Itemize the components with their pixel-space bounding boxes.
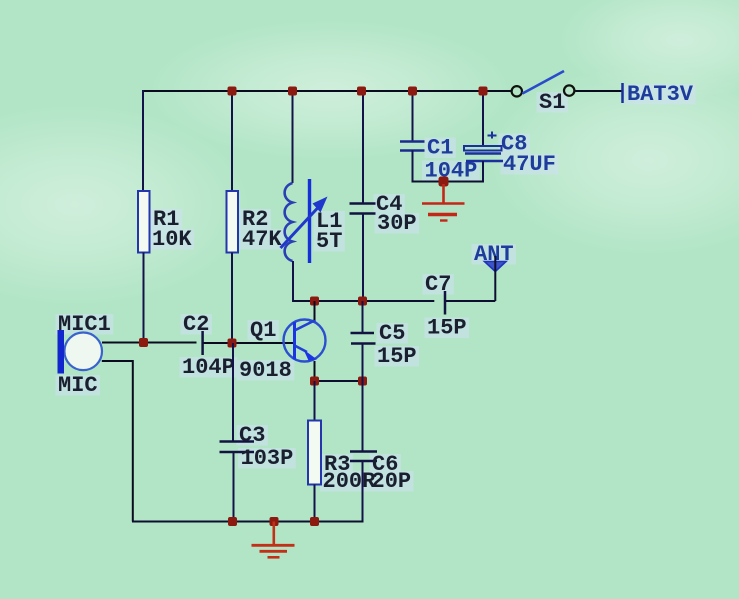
wire C3 top lead	[232, 343, 234, 442]
wire L1 bottom lead	[292, 261, 294, 302]
wire C5 bottom lead	[362, 344, 364, 382]
svg-text:C5: C5	[379, 321, 405, 346]
svg-text:BAT3V: BAT3V	[627, 82, 694, 107]
wire C3 bottom lead	[233, 452, 235, 522]
svg-text:10K: 10K	[152, 227, 192, 252]
svg-text:9018: 9018	[239, 358, 292, 383]
transistor Q1	[284, 320, 326, 362]
capacitor C4	[350, 202, 376, 205]
inductor L1	[281, 179, 328, 263]
wire R2 bottom lead	[231, 253, 233, 344]
wire C6 bottom lead	[362, 461, 364, 523]
capacitor C3	[220, 440, 255, 443]
svg-text:103P: 103P	[241, 446, 294, 471]
wire mid rail	[293, 300, 434, 302]
microphone MIC1	[64, 333, 102, 371]
wire L1 top lead	[292, 91, 294, 183]
node dot C2/R2/C3	[228, 339, 237, 348]
capacitor C1	[400, 140, 425, 143]
wire C2 to base	[204, 342, 295, 344]
ground upper (red)	[422, 184, 465, 221]
wire Q1 collector lead	[314, 301, 316, 320]
svg-text:15P: 15P	[377, 344, 417, 369]
svg-text:5T: 5T	[316, 229, 342, 254]
wire bottom rail	[132, 521, 364, 523]
switch S1	[512, 86, 522, 96]
resistor R3	[308, 421, 321, 485]
svg-text:MIC: MIC	[58, 373, 98, 398]
svg-text:20P: 20P	[372, 469, 412, 494]
wire R2 top lead	[231, 91, 233, 191]
wire R3 top lead	[314, 381, 316, 421]
capacitor C7	[444, 291, 447, 315]
wire switch to battery	[575, 90, 622, 92]
svg-text:C7: C7	[425, 272, 451, 297]
capacitor C8	[464, 146, 502, 151]
svg-text:Q1: Q1	[250, 318, 276, 343]
svg-text:104P: 104P	[182, 355, 235, 380]
svg-text:47K: 47K	[242, 227, 282, 252]
wire C1 top lead	[412, 91, 414, 142]
node junction C1/C8 ground	[439, 177, 449, 187]
wire C8 top lead	[482, 91, 484, 146]
svg-text:C2: C2	[183, 312, 209, 337]
wire R3 bottom lead	[314, 485, 316, 522]
wire C4 bottom lead	[362, 214, 364, 302]
wire mic lower	[102, 361, 133, 522]
wire emitter rail	[315, 380, 363, 382]
svg-text:15P: 15P	[427, 316, 467, 341]
svg-text:C3: C3	[239, 423, 265, 448]
capacitor C6	[350, 450, 377, 453]
capacitor C8 plus sign	[488, 135, 497, 137]
node dots bottom rail	[228, 517, 237, 526]
wire R1 bottom lead	[143, 253, 145, 343]
wire Q1 emitter lead	[314, 361, 316, 381]
wire mic upper	[102, 342, 197, 344]
label halos	[56, 84, 696, 492]
wire R1 top lead	[142, 90, 144, 191]
resistor R1	[138, 191, 150, 253]
svg-text:MIC1: MIC1	[58, 312, 111, 337]
svg-text:30P: 30P	[377, 211, 417, 236]
capacitor C5	[351, 332, 375, 335]
wire C1-C8 bottom link	[412, 181, 485, 183]
node dots top rail	[228, 87, 237, 96]
wire top power rail	[142, 90, 511, 92]
wire C6 top lead	[362, 381, 364, 452]
ground lower (red)	[252, 522, 295, 558]
wire C1 bottom lead	[412, 151, 414, 182]
wire C5 top lead	[362, 301, 364, 333]
node dot mic junction	[139, 338, 148, 347]
wire C8 bottom lead	[482, 161, 484, 182]
battery BAT3V terminal	[621, 83, 624, 103]
resistor R2	[227, 191, 239, 253]
svg-text:S1: S1	[539, 90, 565, 115]
wire C4 top lead	[362, 91, 364, 204]
capacitor C2	[201, 331, 204, 355]
node dots mid rail	[310, 297, 319, 306]
svg-text:47UF: 47UF	[503, 152, 556, 177]
svg-text:C1: C1	[427, 136, 453, 161]
svg-text:200R: 200R	[323, 469, 377, 494]
